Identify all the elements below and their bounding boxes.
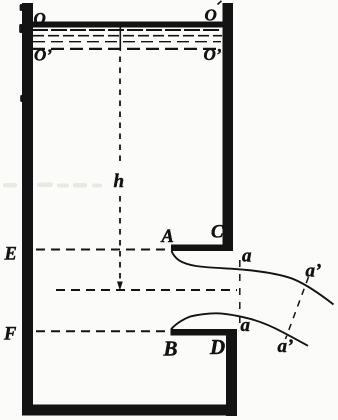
upper jet curve from A — [172, 251, 334, 305]
svg-text:a’: a’ — [306, 261, 322, 282]
dashed line F level — [36, 330, 168, 332]
water line 2 — [33, 35, 222, 37]
dashed line E level — [36, 249, 170, 251]
left wall — [19, 3, 33, 415]
svg-text:D: D — [209, 335, 225, 359]
arrowhead of h line — [117, 282, 123, 291]
ledge A-C — [171, 245, 233, 252]
ledge B-D — [171, 329, 238, 336]
svg-text:E: E — [4, 245, 17, 265]
svg-text:O: O — [205, 5, 217, 24]
svg-text:O’: O’ — [204, 45, 222, 64]
tick at top of right wall — [218, 1, 222, 5]
svg-text:O: O — [34, 9, 46, 28]
middle dashed level line — [56, 289, 237, 291]
svg-text:h: h — [114, 171, 125, 192]
water surface band — [31, 22, 223, 28]
svg-text:F: F — [3, 325, 17, 345]
right upper wall — [223, 3, 234, 251]
bottom wall — [22, 405, 237, 416]
line O'-O' dashed — [32, 48, 222, 50]
vertical dashed a-a — [239, 260, 241, 323]
slanted dashed a'-a' — [286, 277, 309, 339]
svg-text:a: a — [241, 315, 251, 336]
faint ghost print smudge — [3, 183, 102, 188]
svg-text:a’: a’ — [278, 336, 294, 357]
water line 3 — [33, 41, 221, 43]
h measurement line (vertical dashed) — [119, 22, 121, 282]
svg-text:O’: O’ — [34, 46, 52, 65]
lower jet curve from B — [171, 313, 308, 345]
svg-text:a: a — [242, 246, 252, 267]
svg-text:A: A — [161, 227, 174, 247]
svg-text:C: C — [211, 223, 224, 243]
water line 1 — [32, 29, 222, 31]
svg-text:B: B — [163, 337, 178, 361]
right lower wall — [226, 329, 237, 416]
